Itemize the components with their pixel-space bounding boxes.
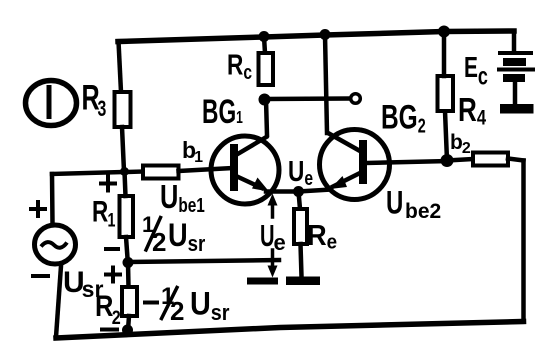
wire BG2 emitter to emitter node bbox=[299, 190, 332, 192]
wire Re bottom bbox=[301, 244, 302, 277]
node Rc top on rail bbox=[259, 31, 270, 42]
label - below R1 bbox=[106, 247, 118, 251]
wire midpoint to ground arrow bbox=[128, 260, 279, 262]
wire bottom-left up to source bbox=[56, 266, 61, 337]
node divider midpoint bbox=[123, 257, 134, 268]
resistor (horizontal) in base lead of BG1 bbox=[143, 166, 179, 179]
resistor R4 bbox=[438, 76, 454, 111]
current source symbol bbox=[26, 81, 77, 126]
label + at source bbox=[31, 202, 45, 216]
label + above R1 bbox=[101, 177, 115, 191]
transistor BG2 bbox=[320, 130, 390, 200]
wire rail to Rc bbox=[264, 37, 265, 54]
node R4 top on rail bbox=[438, 26, 450, 38]
wire emitter node to Re bbox=[299, 192, 301, 210]
svg-text:be2: be2 bbox=[405, 200, 441, 223]
wire source top bbox=[50, 174, 55, 223]
resistor R1 bbox=[120, 196, 134, 237]
wire right side down bbox=[521, 161, 526, 322]
wire BG1 collector up to Rc node bbox=[266, 100, 267, 136]
resistor (horizontal) in base lead of BG2 bbox=[473, 153, 508, 166]
wire midpoint to R2 bbox=[126, 263, 131, 288]
wire top supply rail bbox=[118, 31, 514, 42]
node R2 bottom on rail bbox=[122, 325, 133, 336]
wire output to terminal bbox=[265, 96, 349, 101]
wire R2 to bottom rail bbox=[128, 316, 129, 330]
arrow Ue down bbox=[268, 250, 278, 278]
wire b2 to horizontal resistor bbox=[447, 159, 473, 161]
node b2 bbox=[441, 154, 454, 167]
svg-text:2: 2 bbox=[152, 227, 166, 257]
wire R1 to midpoint node bbox=[126, 237, 128, 258]
wire BG2 collector to rail bbox=[325, 35, 327, 134]
arrow Ue up bbox=[268, 194, 278, 218]
resistor R2 bbox=[122, 287, 137, 316]
label -1/2 Usr (fraction) bbox=[145, 283, 229, 326]
wire rail to R4 bbox=[442, 32, 447, 77]
wire resistor to right corner bbox=[508, 159, 524, 161]
wire bottom rail bbox=[56, 322, 524, 339]
resistor R3 bbox=[115, 92, 131, 127]
label + above R2 bbox=[106, 268, 120, 282]
wire R4 bottom to b2 bbox=[445, 111, 447, 161]
node collector/output junction bbox=[259, 94, 271, 106]
wire R3 bottom to node bbox=[122, 127, 124, 172]
svg-text:U: U bbox=[386, 184, 403, 220]
wire rail corner down to R3 bbox=[119, 42, 122, 93]
wire node to R1 bbox=[125, 172, 126, 197]
ground bar at divider midpoint bbox=[247, 278, 278, 285]
wire BG1 emitter to emitter node bbox=[266, 189, 299, 194]
battery Ec bbox=[497, 31, 535, 114]
svg-text:U: U bbox=[260, 218, 275, 254]
wire resistor to base b1 bbox=[179, 168, 234, 171]
svg-text:2: 2 bbox=[170, 296, 184, 326]
label - below R2 bbox=[102, 328, 117, 332]
output terminal (open circle) bbox=[351, 94, 361, 104]
resistor Rc bbox=[259, 53, 274, 85]
label - at source bbox=[33, 274, 48, 278]
label 1/2 Usr (fraction) bbox=[142, 212, 205, 257]
resistor Re bbox=[294, 209, 307, 244]
wire left horizontal to divider node bbox=[52, 172, 143, 175]
svg-text:e: e bbox=[274, 230, 286, 255]
source Usr (AC) bbox=[35, 225, 76, 264]
transistor BG1 bbox=[211, 136, 279, 204]
ground bar under Re bbox=[286, 277, 320, 286]
node emitter junction bbox=[293, 186, 304, 197]
node R3/R1/source junction bbox=[120, 167, 129, 176]
wire BG2 base to node b2 bbox=[367, 161, 447, 163]
node BG2 collector on rail bbox=[320, 29, 331, 40]
